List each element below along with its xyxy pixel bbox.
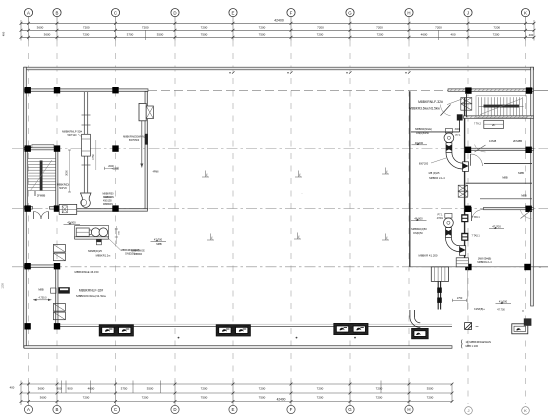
svg-text:E: E [232,10,235,15]
svg-text:2FM8B: 2FM8B [513,139,522,143]
svg-text:3600: 3600 [40,395,47,399]
window marks below top wall [229,71,410,73]
duct shaft X mid right wall [458,185,467,197]
vertical dim 1750 right of riser [92,140,96,170]
elevation flag 41.000 [496,300,512,304]
svg-text:P7.1: P7.1 [456,134,462,137]
svg-text:3500: 3500 [147,386,154,390]
sill marker x296 [296,337,298,339]
pump room right wall [145,92,148,210]
vertical dim 3000 pump room [65,150,71,192]
svg-text:500*120: 500*120 [68,134,78,137]
svg-text:7200: 7200 [317,26,324,30]
column K3 [525,206,531,212]
svg-text:7200: 7200 [83,26,90,30]
svg-text:B: B [56,10,59,15]
svg-text:3000: 3000 [455,128,461,131]
svg-text:H: H [407,10,410,15]
leader fancoil mid [447,99,462,105]
svg-text:M8BKRNLF-32#: M8BKRNLF-32# [79,288,103,292]
svg-text:J: J [467,10,469,15]
column A1 [25,87,31,93]
leader right of K1 [533,90,548,92]
svg-text:M8BKRL3~4: M8BKRL3~4 [477,261,492,264]
svg-text:3600: 3600 [44,33,51,37]
corridor wall J-side [464,97,466,266]
svg-text:900: 900 [56,386,61,390]
svg-text:3000: 3000 [65,170,68,176]
svg-text:7500: 7500 [259,33,266,37]
closet inner line [484,123,504,125]
duct riser pair R2 on wall B [53,304,65,320]
svg-text:7200: 7200 [317,33,324,37]
wall row-209 pump room bottom seg2 [50,207,61,210]
svg-text:3500: 3500 [157,33,164,37]
wall row-266 left [24,265,59,268]
svg-text:46.000: 46.000 [414,217,423,221]
column B5 [54,323,60,329]
wall row-209 right seg1 [465,207,472,209]
svg-text:A: A [27,407,30,412]
svg-text:7 TA5.1: 7 TA5.1 [472,216,481,219]
svg-text:7200: 7200 [435,26,442,30]
elevation flag 47.700 right room [489,225,504,229]
elbow duct a [446,153,463,170]
svg-text:47.700: 47.700 [154,237,163,241]
wall row-150 right [465,148,534,150]
inline silencer box on riser [82,134,91,156]
svg-text:G: G [348,407,352,412]
svg-text:40.000: 40.000 [67,220,76,224]
svg-text:2FM8B: 2FM8B [37,194,46,198]
fan scroll unit b [444,213,454,227]
column A5 [24,323,30,329]
svg-text:M8BKR(D): M8BKR(D) [57,182,70,186]
door arc row148 [475,145,486,153]
duct riser pair R1 on wall B [53,245,65,261]
AHU pair 3 bottom [323,323,385,334]
label unit at wall [123,136,145,142]
svg-text:P7.1: P7.1 [438,213,444,216]
svg-text:K25#(B)+: K25#(B)+ [474,308,485,311]
elbow end box a [463,162,469,172]
stair right enclosure west wall [466,93,468,117]
note brace bottom right [460,340,463,349]
window sill line bottom band [57,325,452,327]
svg-text:1750: 1750 [92,154,95,160]
elbow duct b [446,238,460,252]
label silencer mid2 [411,227,427,235]
wall row-209 pump room bottom seg1 [24,207,33,210]
AHU pair 1 bottom [89,325,151,336]
label silencer mid1 [415,127,432,135]
svg-text:500*D500: 500*D500 [129,140,140,142]
svg-text:400: 400 [529,33,534,37]
horizontal pump assembly [75,226,109,245]
sill marker x355 [354,337,356,339]
stair left landing slab [32,145,54,148]
dimension lines bottom [21,384,452,402]
svg-text:3500: 3500 [427,386,434,390]
partition y131 [411,131,460,133]
dots right margin [522,266,540,311]
svg-text:G: G [348,10,352,15]
svg-text:46.000: 46.000 [415,141,424,145]
svg-text:2%: 2% [206,173,208,176]
svg-text:500*20: 500*20 [59,187,67,190]
label exhaust fan pump room [103,195,114,206]
extension lines and ticks top [20,17,536,41]
column J2 [465,147,471,153]
double door below stair [34,212,49,220]
dimension texts bottom row1 [38,386,434,390]
partition x459 vertical [459,118,461,131]
svg-text:==: == [475,325,479,328]
hatch in stair bottom wall [466,116,532,119]
fan coil FC2 on J wall [461,233,468,241]
svg-text:47.700: 47.700 [497,308,505,311]
duct shaft with X top-right [461,98,472,111]
pump leader line [108,238,121,250]
exterior wall right [531,67,534,306]
column B4 [54,263,60,269]
svg-text:7200: 7200 [493,26,500,30]
svg-text:M8BKR: M8BKR [134,253,143,256]
fan coil on wall y209 [59,204,76,214]
stair left up-arrow [35,191,45,198]
svg-text:A: A [27,10,30,15]
svg-text:M8BKR(d)50: M8BKR(d)50 [411,227,427,231]
dimension line top total [21,22,534,24]
svg-text:M8B: M8B [518,171,524,175]
svg-text:47.700: 47.700 [492,225,501,229]
label silencer elbow [121,248,140,256]
svg-text:C: C [114,407,117,412]
line row-267 right [410,266,548,268]
vertical grid lines [29,41,526,405]
svg-text:4700n: 4700n [437,218,444,220]
extension lines and ticks bottom [20,381,454,406]
AHU pair 2 bottom [206,325,268,336]
svg-text:M8BKR(NGE): M8BKR(NGE) [415,127,432,131]
column A2 [25,145,31,151]
stair left treads and rail [28,159,56,191]
svg-text:F: F [290,10,293,15]
svg-text:M8B: M8B [156,242,162,246]
svg-text:K: K [524,408,527,413]
dark box left of shaft [457,114,463,120]
label 1tong [477,256,492,264]
duct drop dark [437,281,442,309]
svg-text:7200: 7200 [83,395,90,399]
svg-text:DN(D)50: DN(D)50 [413,232,423,235]
svg-text:M8B: M8B [521,193,527,197]
fan box on pump room wall [139,103,153,120]
svg-text:M8BKRN: M8BKRN [103,203,113,206]
svg-text:1750: 1750 [457,297,463,300]
svg-text:M8B: M8B [38,288,44,292]
svg-text:4,700.0: 4,700.0 [39,296,48,299]
svg-text:900: 900 [67,386,72,390]
elbow end box b [460,246,466,256]
pump bottle flask [81,193,92,207]
corridor wall H [409,91,411,266]
svg-text:400: 400 [450,33,455,37]
column K4 [524,264,530,270]
pump room wall dark chunk [145,134,148,145]
svg-text:7500: 7500 [201,33,208,37]
elevation flag 47.700 hall [151,237,167,246]
partition y183 [466,182,532,184]
svg-text:2%: 2% [386,236,388,239]
svg-text:7500: 7500 [259,395,266,399]
svg-text:2000: 2000 [108,165,114,168]
slope mark m4 [207,234,214,241]
faint wall below J4 [467,268,469,310]
svg-text:7200: 7200 [259,26,266,30]
downpipe from fan box [140,121,143,168]
exterior wall bottom [24,346,452,349]
svg-text:2%: 2% [298,235,300,238]
grid bubbles bottom [24,405,529,414]
wall row-209 right seg2 [484,207,534,209]
dim 4700 smoke shaft [33,296,52,301]
svg-text:B: B [56,407,59,412]
louver box row267 a [456,258,468,267]
grid bubbles top A-K [24,9,529,17]
column B2 [54,145,60,151]
svg-text:M82B(D)25: M82B(D)25 [88,249,102,253]
leader 00-200 [431,158,446,163]
partition y199 [480,198,532,200]
svg-text:M8BKR 41.200: M8BKR 41.200 [419,253,438,257]
dim 2000 below pump room [105,165,119,170]
column J1 [465,87,471,93]
svg-text:4FM8: 4FM8 [153,172,160,174]
svg-text:M8BKRNLF-32#: M8BKRNLF-32# [418,100,443,104]
AHU single near duct [401,328,445,338]
svg-text:7200: 7200 [376,386,383,390]
svg-text:400: 400 [2,31,6,36]
inner wall B below [56,267,58,326]
svg-text:M8BKR1.2m: M8BKR1.2m [96,254,111,258]
svg-text:2%: 2% [211,236,213,239]
closet box DF [484,120,504,128]
svg-text:M8BKR3.6kw,N1.5kw: M8BKR3.6kw,N1.5kw [409,106,440,110]
column J4 [465,264,471,270]
svg-text:7 TA.2: 7 TA.2 [474,123,481,126]
leader to riser label [78,134,82,137]
label fancoil LF32 mid [409,100,443,110]
svg-text:7200: 7200 [201,26,208,30]
fan scroll unit a [444,129,454,143]
svg-text:J: J [468,408,470,413]
svg-text:7 TA5.1: 7 TA5.1 [472,234,481,237]
svg-text:500*20: 500*20 [105,197,113,199]
svg-text:1200: 1200 [2,283,5,289]
door arc row209 [472,210,484,222]
svg-text:4600: 4600 [88,386,95,390]
dimension line top row1 [21,29,534,31]
svg-text:E: E [232,407,235,412]
svg-text:7200: 7200 [317,386,324,390]
svg-text:7200: 7200 [142,26,149,30]
louver box below row267 [431,267,448,282]
horizontal grid lines [12,90,548,266]
dimension texts top row1 [37,26,501,30]
svg-text:7500: 7500 [201,395,208,399]
column A4 [24,263,30,269]
label D25 mid [429,171,446,180]
svg-text:3700: 3700 [127,33,134,37]
label pumps 2x [88,249,110,257]
svg-text:M8B 1:100: M8B 1:100 [466,344,479,348]
small hatched box J [465,323,479,330]
stair left wall west [26,150,28,209]
slope mark m1 [202,171,209,178]
dimension texts top row2 [44,33,500,37]
slope mark m6 [382,234,389,241]
elbow to AHU bottom [410,310,420,327]
slope mark m5 [294,233,301,240]
elevation flag 46.000 a [412,141,428,145]
slope mark m2 [295,171,302,178]
column B1 [54,87,60,93]
column K2 [525,147,531,153]
wall row-148 stair left [24,147,59,150]
svg-text:3750: 3750 [121,386,128,390]
AHU box K bottom [512,318,532,333]
dim 1750 bottom right [453,297,467,302]
column J3 [465,206,471,212]
second sill line bottom band [57,323,452,325]
svg-text:2%: 2% [299,173,301,176]
svg-text:D: D [173,407,176,412]
fan coil on wall B [51,287,70,293]
exterior wall left [24,67,27,347]
svg-text:1FM8: 1FM8 [489,139,497,143]
duct tick marks riser [82,115,91,165]
svg-text:2%: 2% [386,170,388,173]
svg-text:DN(D)50/50: DN(D)50/50 [416,132,429,135]
svg-text:M8BKR L3~4: M8BKR L3~4 [429,176,445,180]
column C1 [112,87,118,93]
label silencer pump room [57,182,70,189]
svg-text:1F M8BKRNGEWHN: 1F M8BKRNGEWHN [466,340,491,344]
svg-text:H: H [407,407,410,412]
partition y163 [484,162,532,164]
label louver note hall [131,249,145,255]
label silencer pump room bottom [103,193,115,199]
svg-text:7200: 7200 [493,33,500,37]
elevation flag 46.000 b [411,217,427,221]
svg-text:41.000: 41.000 [499,300,508,304]
svg-text:2F: 2F [492,123,496,127]
column B3 [54,205,60,211]
svg-text:7200: 7200 [83,33,90,37]
dimension texts bottom row2 [40,395,434,399]
svg-text:1M8 05#(B): 1M8 05#(B) [478,256,492,260]
hatch in stair band wall [450,89,532,91]
duct segment b [446,228,452,238]
door arc room1 [471,154,483,166]
label fan group pump room [62,130,82,137]
duct segment a [446,143,452,153]
stair bottom wall right [464,116,534,119]
dimension line top row2 [21,36,534,38]
svg-text:C: C [114,10,117,15]
svg-text:M8B: M8B [502,176,508,180]
svg-text:42400: 42400 [274,19,284,23]
label fan coil LF32 left [76,288,107,297]
column K1 [526,87,532,93]
svg-text:7200: 7200 [427,395,434,399]
column A3 [25,205,31,211]
svg-text:7200: 7200 [142,395,149,399]
svg-text:7200: 7200 [317,395,324,399]
elevation flag 40.000 [64,220,81,224]
door leaf into stair hall [440,105,450,116]
column C2 [112,145,118,151]
stair right treads and rail [479,97,524,115]
svg-text:600*200: 600*200 [419,162,429,165]
wall row-90 right stair band [448,89,534,92]
vertical duct riser pump room [84,92,87,193]
svg-text:7200: 7200 [201,386,208,390]
svg-text:M8BKR50: M8BKR50 [103,193,115,196]
exterior wall top [24,67,534,70]
svg-text:K: K [524,10,527,15]
svg-text:7200: 7200 [377,33,384,37]
svg-text:M8 (D)25: M8 (D)25 [429,171,440,175]
vertical dim chain pumps [115,226,121,244]
slope mark m3 [382,168,389,175]
fan coil FC1 on J wall [461,214,468,222]
sill marker x178 [178,337,180,339]
svg-text:M8BKR0.6kw,N1.5kw: M8BKR0.6kw,N1.5kw [76,294,107,298]
label P7.1 b [437,213,444,219]
svg-text:7200: 7200 [376,26,383,30]
svg-text:42400: 42400 [277,397,286,401]
stair right inner rect [476,96,527,118]
svg-text:4600: 4600 [421,33,428,37]
wall row-90 left (A-C) [24,89,148,92]
svg-text:M8BKRNGE 46.150: M8BKRNGE 46.150 [74,270,99,274]
svg-text:D: D [173,10,176,15]
svg-text:7200: 7200 [376,395,383,399]
svg-text:7200: 7200 [259,386,266,390]
svg-text:F: F [290,407,293,412]
svg-text:3600: 3600 [37,26,44,30]
svg-text:400: 400 [10,386,15,390]
wall row-209 pump room bottom seg3 [76,209,148,212]
svg-text:M8BKRNLF-32#: M8BKRNLF-32# [62,130,82,134]
stair left wall east [56,150,58,209]
svg-text:3600: 3600 [38,386,45,390]
door arc lower-right room [521,210,532,219]
column C3 [112,205,118,211]
